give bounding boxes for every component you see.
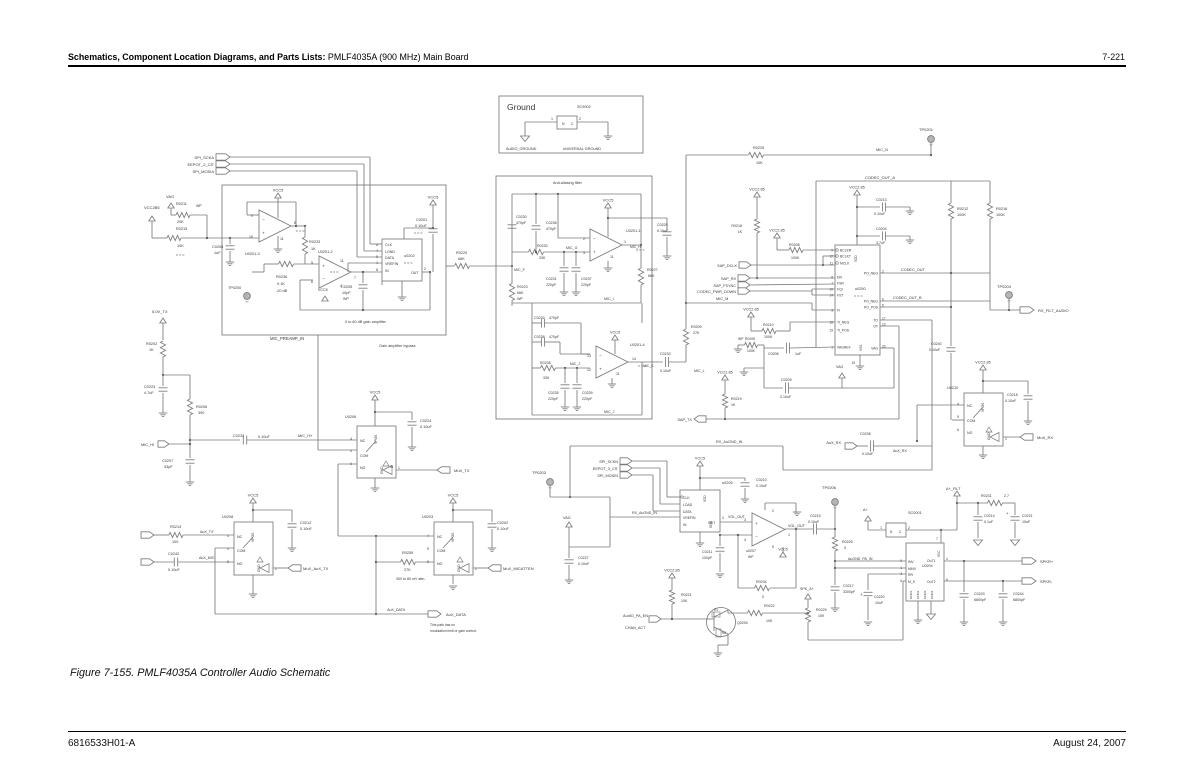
svg-text:INV: INV bbox=[908, 560, 914, 564]
svg-text:33pF: 33pF bbox=[164, 465, 173, 469]
svg-text:NC: NC bbox=[967, 404, 973, 408]
svg-text:220pF: 220pF bbox=[581, 283, 592, 287]
svg-text:−: − bbox=[599, 354, 602, 359]
svg-text:U0210: U0210 bbox=[947, 386, 958, 390]
svg-text:C0204: C0204 bbox=[876, 227, 887, 231]
svg-text:0.10uF: 0.10uF bbox=[808, 520, 820, 524]
svg-text:Gain amplifier bypass: Gain amplifier bypass bbox=[379, 344, 416, 348]
svg-text:VCC5: VCC5 bbox=[448, 493, 459, 498]
svg-text:C0235: C0235 bbox=[548, 391, 559, 395]
svg-text:10K: 10K bbox=[681, 599, 688, 603]
svg-text:+: + bbox=[860, 592, 863, 597]
svg-text:NO: NO bbox=[967, 431, 973, 435]
svg-text:470pF: 470pF bbox=[549, 335, 560, 339]
svg-text:66K: 66K bbox=[458, 257, 465, 261]
svg-text:SPI_SCKN: SPI_SCKN bbox=[599, 460, 618, 464]
svg-text:M_S: M_S bbox=[908, 580, 916, 584]
svg-text:2: 2 bbox=[583, 237, 585, 241]
svg-text:6800pF: 6800pF bbox=[974, 598, 987, 602]
svg-text:C0201: C0201 bbox=[416, 218, 427, 222]
svg-text:R0225: R0225 bbox=[753, 146, 764, 150]
svg-text:9: 9 bbox=[900, 559, 902, 563]
svg-text:+: + bbox=[755, 521, 758, 526]
svg-text:R0236: R0236 bbox=[276, 275, 287, 279]
svg-text:VPOS: VPOS bbox=[251, 532, 255, 542]
svg-text:MuX_MICATTEN: MuX_MICATTEN bbox=[503, 566, 534, 571]
svg-text:WP: WP bbox=[196, 204, 202, 208]
svg-text:BCLKR: BCLKR bbox=[840, 249, 852, 253]
svg-text:MIC_M: MIC_M bbox=[716, 297, 728, 301]
svg-text:10pF: 10pF bbox=[342, 291, 351, 295]
svg-text:TO: TO bbox=[873, 319, 878, 323]
svg-text:R0213: R0213 bbox=[170, 525, 181, 529]
svg-text:SC0001: SC0001 bbox=[908, 511, 922, 515]
svg-text:1K: 1K bbox=[738, 230, 743, 234]
svg-text:MIC_J: MIC_J bbox=[604, 410, 615, 414]
svg-text:VCC5: VCC5 bbox=[610, 331, 620, 335]
svg-text:SPKR-: SPKR- bbox=[1040, 579, 1053, 584]
svg-text:SC9002: SC9002 bbox=[577, 105, 591, 109]
svg-text:10K: 10K bbox=[177, 244, 184, 248]
svg-text:VOL_OUT': VOL_OUT' bbox=[788, 524, 806, 528]
svg-text:MIC_F: MIC_F bbox=[514, 268, 526, 272]
svg-text:R0219: R0219 bbox=[731, 397, 742, 401]
svg-text:C0232: C0232 bbox=[534, 316, 545, 320]
svg-text:5: 5 bbox=[311, 261, 313, 265]
svg-text:+: + bbox=[599, 366, 602, 371]
svg-text:COM: COM bbox=[237, 549, 245, 553]
svg-text:1: 1 bbox=[624, 240, 626, 244]
svg-text:2: 2 bbox=[772, 509, 774, 513]
svg-text:C0243: C0243 bbox=[974, 592, 985, 596]
svg-text:5: 5 bbox=[427, 547, 429, 551]
svg-text:1: 1 bbox=[398, 466, 400, 470]
svg-text:C0220: C0220 bbox=[874, 595, 885, 599]
svg-text:100: 100 bbox=[172, 540, 178, 544]
svg-text:Q0200: Q0200 bbox=[737, 621, 748, 625]
svg-text:SPKR+: SPKR+ bbox=[1040, 559, 1054, 564]
svg-text:100pF: 100pF bbox=[702, 556, 713, 560]
svg-text:100K: 100K bbox=[791, 256, 800, 260]
svg-text:0: 0 bbox=[762, 595, 764, 599]
svg-text:VCC2.85: VCC2.85 bbox=[664, 569, 679, 573]
svg-text:11: 11 bbox=[610, 255, 614, 259]
svg-text:100K: 100K bbox=[957, 213, 966, 217]
svg-text:CODEC_PWR_DOWN: CODEC_PWR_DOWN bbox=[697, 290, 736, 294]
svg-text:R0255: R0255 bbox=[402, 551, 413, 555]
svg-text:C0211: C0211 bbox=[702, 550, 712, 554]
svg-text:R0229: R0229 bbox=[816, 608, 827, 612]
svg-text:7: 7 bbox=[354, 276, 356, 280]
svg-text:11: 11 bbox=[340, 259, 344, 263]
svg-text:11: 11 bbox=[280, 237, 284, 241]
svg-text:AuX_TX': AuX_TX' bbox=[200, 530, 214, 534]
svg-text:U0208: U0208 bbox=[222, 515, 233, 519]
svg-text:MuX_TX: MuX_TX bbox=[454, 468, 470, 473]
svg-text:MIC_PREAMP_IN: MIC_PREAMP_IN bbox=[270, 336, 304, 341]
svg-text:+: + bbox=[1006, 511, 1009, 516]
svg-text:R0216: R0216 bbox=[996, 207, 1007, 211]
svg-text:C0233: C0233 bbox=[660, 352, 671, 356]
svg-text:33K: 33K bbox=[539, 256, 546, 260]
svg-text:0: 0 bbox=[844, 546, 846, 550]
svg-text:0.10uF: 0.10uF bbox=[168, 568, 181, 572]
svg-text:3: 3 bbox=[744, 518, 746, 522]
svg-text:PO_NEG: PO_NEG bbox=[864, 272, 878, 276]
svg-text:RX_AuGND_IN: RX_AuGND_IN bbox=[632, 511, 657, 515]
svg-text:27K: 27K bbox=[404, 568, 411, 572]
svg-text:WP: WP bbox=[517, 297, 523, 301]
svg-text:4: 4 bbox=[946, 557, 948, 561]
svg-text:R0206: R0206 bbox=[196, 405, 207, 409]
svg-text:SAP_TX: SAP_TX bbox=[677, 418, 692, 422]
svg-text:MIC_HI: MIC_HI bbox=[141, 443, 154, 447]
svg-text:NO: NO bbox=[237, 562, 243, 566]
svg-text:−: − bbox=[593, 237, 596, 242]
svg-text:9.1K: 9.1K bbox=[277, 282, 285, 286]
svg-text:15: 15 bbox=[851, 361, 855, 365]
svg-text:390: 390 bbox=[198, 411, 204, 415]
svg-text:u0207: u0207 bbox=[746, 549, 756, 553]
svg-text:R0210: R0210 bbox=[763, 323, 774, 327]
svg-text:COM: COM bbox=[437, 549, 445, 553]
svg-text:1: 1 bbox=[900, 566, 902, 570]
svg-text:4: 4 bbox=[350, 437, 352, 441]
svg-text:R0221: R0221 bbox=[681, 593, 692, 597]
svg-text:VCC5: VCC5 bbox=[603, 198, 614, 203]
svg-text:100K: 100K bbox=[996, 213, 1005, 217]
svg-text:PO_POS: PO_POS bbox=[864, 306, 879, 310]
svg-text:OUT: OUT bbox=[411, 271, 419, 275]
svg-text:+: + bbox=[593, 249, 596, 254]
svg-text:11: 11 bbox=[616, 372, 620, 376]
svg-text:10uF: 10uF bbox=[1022, 520, 1031, 524]
svg-text:100K: 100K bbox=[764, 335, 773, 339]
svg-text:IN: IN bbox=[390, 465, 394, 469]
svg-text:EEPOT_3_CS': EEPOT_3_CS' bbox=[593, 467, 618, 471]
svg-text:VCC5: VCC5 bbox=[318, 288, 328, 292]
svg-text:C0230: C0230 bbox=[516, 215, 527, 219]
svg-text:Anti-aliasing filter: Anti-aliasing filter bbox=[553, 181, 583, 185]
svg-text:8: 8 bbox=[376, 268, 378, 272]
svg-text:13: 13 bbox=[587, 354, 591, 358]
svg-text:VCC2.85: VCC2.85 bbox=[749, 188, 764, 192]
svg-text:6: 6 bbox=[957, 428, 959, 432]
svg-text:WP: WP bbox=[343, 297, 349, 301]
svg-text:1K: 1K bbox=[731, 403, 736, 407]
svg-text:VCC2.85: VCC2.85 bbox=[717, 371, 732, 375]
svg-text:C0218: C0218 bbox=[1007, 393, 1018, 397]
svg-text:CODEC_OUT_B: CODEC_OUT_B bbox=[893, 296, 922, 300]
svg-text:0.10uF: 0.10uF bbox=[660, 369, 672, 373]
svg-text:VAGREF: VAGREF bbox=[837, 346, 851, 350]
svg-text:SAP_DCLK: SAP_DCLK bbox=[717, 264, 737, 268]
svg-text:RX_FILT_AUDIO: RX_FILT_AUDIO bbox=[1038, 308, 1069, 313]
svg-text:VREFIN: VREFIN bbox=[683, 516, 696, 520]
svg-text:3300pF: 3300pF bbox=[843, 590, 856, 594]
svg-text:MIC_L: MIC_L bbox=[694, 369, 705, 373]
svg-text:0.10uF: 0.10uF bbox=[929, 348, 941, 352]
svg-text:C0207: C0207 bbox=[162, 459, 173, 463]
svg-text:R0226: R0226 bbox=[842, 540, 853, 544]
svg-text:VSS: VSS bbox=[859, 345, 863, 351]
svg-text:CLK: CLK bbox=[683, 496, 690, 500]
svg-text:TP0201: TP0201 bbox=[919, 127, 934, 132]
svg-text:4: 4 bbox=[744, 538, 746, 542]
svg-text:AuX_DATA: AuX_DATA bbox=[446, 612, 466, 617]
svg-text:NO: NO bbox=[437, 562, 443, 566]
svg-text:A+: A+ bbox=[863, 508, 869, 512]
svg-text:10K: 10K bbox=[756, 161, 763, 165]
svg-text:66K: 66K bbox=[517, 291, 524, 295]
svg-text:IN: IN bbox=[683, 523, 687, 527]
svg-text:AuX_MIC': AuX_MIC' bbox=[199, 556, 215, 560]
svg-text:GND4: GND4 bbox=[930, 590, 934, 599]
svg-text:TI_NEG: TI_NEG bbox=[837, 321, 850, 325]
svg-text:6: 6 bbox=[900, 579, 902, 583]
svg-text:WP: WP bbox=[738, 337, 744, 341]
svg-text:NC: NC bbox=[237, 535, 243, 539]
svg-text:7: 7 bbox=[936, 537, 938, 541]
svg-text:C0205: C0205 bbox=[341, 285, 352, 289]
svg-text:TP0203: TP0203 bbox=[532, 470, 547, 475]
svg-text:RX_AuGND_IN: RX_AuGND_IN bbox=[716, 440, 743, 444]
svg-text:+: + bbox=[262, 230, 265, 235]
svg-text:−: − bbox=[262, 218, 265, 223]
svg-text:R0211: R0211 bbox=[176, 202, 187, 206]
svg-text:300 to 80 mV attn.: 300 to 80 mV attn. bbox=[396, 577, 425, 581]
svg-text:R0223: R0223 bbox=[517, 285, 528, 289]
svg-text:0.10uF: 0.10uF bbox=[657, 229, 669, 233]
svg-text:VCC2.85: VCC2.85 bbox=[975, 361, 990, 365]
svg-text:C0237: C0237 bbox=[581, 277, 592, 281]
svg-text:TP0206: TP0206 bbox=[822, 485, 837, 490]
svg-text:VCC2.85: VCC2.85 bbox=[769, 229, 784, 233]
svg-text:TP0204: TP0204 bbox=[997, 284, 1012, 289]
svg-text:470pF: 470pF bbox=[549, 316, 560, 320]
svg-text:SPI_MOSIN: SPI_MOSIN bbox=[597, 474, 618, 478]
svg-text:U0203: U0203 bbox=[422, 515, 433, 519]
svg-text:C0214: C0214 bbox=[984, 514, 995, 518]
svg-text:OuT1: OuT1 bbox=[927, 559, 936, 563]
svg-text:R0227: R0227 bbox=[647, 268, 658, 272]
svg-text:+: + bbox=[322, 264, 325, 269]
svg-text:10K: 10K bbox=[818, 614, 825, 618]
svg-text:66K: 66K bbox=[648, 274, 655, 278]
svg-text:This path has no: This path has no bbox=[430, 623, 455, 627]
svg-text:−: − bbox=[755, 534, 758, 539]
svg-text:GND: GND bbox=[987, 432, 991, 440]
svg-text:VREFIN: VREFIN bbox=[385, 262, 399, 266]
svg-text:0.10uF: 0.10uF bbox=[415, 224, 428, 228]
svg-text:MIC_K: MIC_K bbox=[643, 364, 654, 368]
svg-text:0.10uF: 0.10uF bbox=[258, 435, 271, 439]
svg-text:FQI: FQI bbox=[837, 288, 843, 292]
svg-text:4.7uF: 4.7uF bbox=[876, 241, 886, 245]
svg-text:0.1uF: 0.1uF bbox=[984, 520, 994, 524]
svg-text:C0202: C0202 bbox=[497, 521, 508, 525]
svg-text:WP: WP bbox=[748, 555, 754, 559]
svg-text:2: 2 bbox=[424, 267, 426, 271]
svg-text:C0240: C0240 bbox=[931, 342, 942, 346]
svg-text:5.0V_TX: 5.0V_TX bbox=[152, 309, 168, 314]
svg-text:4.7uF: 4.7uF bbox=[144, 391, 154, 395]
svg-text:R0231: R0231 bbox=[981, 494, 992, 498]
svg-text:CODEC_OUT_A: CODEC_OUT_A bbox=[865, 175, 895, 180]
svg-text:VDD: VDD bbox=[854, 255, 858, 262]
svg-text:U0201-3: U0201-3 bbox=[245, 252, 260, 256]
svg-text:R0209: R0209 bbox=[691, 325, 702, 329]
svg-text:CLK: CLK bbox=[385, 243, 393, 247]
svg-text:CHAN_ACT: CHAN_ACT bbox=[625, 626, 646, 630]
svg-text:12: 12 bbox=[587, 368, 591, 372]
svg-text:NINV: NINV bbox=[908, 567, 917, 571]
svg-text:VAG: VAG bbox=[836, 365, 844, 369]
svg-text:modulation limit or gain contr: modulation limit or gain control. bbox=[430, 629, 477, 633]
svg-text:5: 5 bbox=[772, 545, 774, 549]
svg-text:C: C bbox=[899, 530, 902, 534]
svg-text:u0250: u0250 bbox=[855, 287, 866, 291]
svg-text:19: 19 bbox=[829, 328, 833, 332]
svg-text:3: 3 bbox=[900, 572, 902, 576]
svg-text:AuX_RX: AuX_RX bbox=[826, 441, 841, 445]
svg-text:R0212: R0212 bbox=[957, 207, 968, 211]
svg-text:C0221: C0221 bbox=[1022, 514, 1033, 518]
svg-text:AuDIO_GROUND: AuDIO_GROUND bbox=[506, 147, 537, 151]
svg-text:SPK_A+: SPK_A+ bbox=[800, 587, 814, 591]
svg-text:VPOS: VPOS bbox=[981, 402, 985, 412]
svg-text:EEPOT_2_CS': EEPOT_2_CS' bbox=[187, 162, 214, 167]
svg-text:DATA: DATA bbox=[683, 510, 692, 514]
svg-text:2: 2 bbox=[579, 117, 581, 121]
svg-text:C0224: C0224 bbox=[420, 419, 431, 423]
svg-text:C0236: C0236 bbox=[546, 221, 557, 225]
svg-text:SAP_RX: SAP_RX bbox=[721, 277, 736, 281]
svg-text:AuX_DATA: AuX_DATA bbox=[387, 608, 405, 612]
svg-text:R0233: R0233 bbox=[309, 240, 320, 244]
svg-text:N: N bbox=[562, 122, 565, 126]
svg-text:AuGND_PA_IN: AuGND_PA_IN bbox=[848, 557, 873, 561]
svg-text:C0206: C0206 bbox=[768, 352, 779, 356]
svg-text:BCLKT: BCLKT bbox=[840, 255, 851, 259]
svg-text:1: 1 bbox=[880, 526, 882, 530]
svg-text:uNIVERSAL GROuND: uNIVERSAL GROuND bbox=[563, 147, 601, 151]
svg-text:20K: 20K bbox=[177, 220, 184, 224]
svg-text:R0208: R0208 bbox=[789, 243, 800, 247]
svg-text:0.10uF: 0.10uF bbox=[862, 452, 874, 456]
svg-text:−: − bbox=[322, 276, 325, 281]
svg-text:C0244: C0244 bbox=[1013, 592, 1024, 596]
svg-text:FST: FST bbox=[837, 294, 843, 298]
svg-text:COM: COM bbox=[360, 454, 368, 458]
svg-text:VAG: VAG bbox=[166, 194, 174, 199]
svg-text:10K: 10K bbox=[766, 619, 773, 623]
svg-text:VCC5: VCC5 bbox=[695, 457, 705, 461]
svg-text:C0209: C0209 bbox=[781, 378, 792, 382]
svg-text:MIC_N: MIC_N bbox=[876, 148, 888, 152]
svg-text:FSR: FSR bbox=[837, 282, 844, 286]
svg-text:R0234: R0234 bbox=[756, 580, 767, 584]
svg-text:27K: 27K bbox=[693, 331, 700, 335]
svg-text:R0218: R0218 bbox=[731, 224, 742, 228]
svg-text:Ground: Ground bbox=[507, 102, 536, 112]
svg-text:C0215: C0215 bbox=[810, 514, 821, 518]
svg-text:LOAD: LOAD bbox=[683, 503, 693, 507]
svg-text:SPI_MOSIA: SPI_MOSIA bbox=[192, 169, 214, 174]
svg-text:220pF: 220pF bbox=[582, 397, 593, 401]
svg-text:MIC_HY: MIC_HY bbox=[298, 434, 313, 438]
svg-text:VPOS: VPOS bbox=[451, 532, 455, 542]
svg-text:C0227: C0227 bbox=[578, 556, 589, 560]
svg-text:VCC5: VCC5 bbox=[273, 188, 284, 193]
svg-text:VCC2.85: VCC2.85 bbox=[849, 186, 864, 190]
svg-text:0.10uF: 0.10uF bbox=[497, 527, 510, 531]
svg-text:10uF: 10uF bbox=[875, 601, 884, 605]
svg-text:6800pF: 6800pF bbox=[1013, 598, 1026, 602]
svg-text:R0230: R0230 bbox=[537, 244, 548, 248]
svg-text:MuX_RX: MuX_RX bbox=[1037, 435, 1053, 440]
svg-text:VCC5: VCC5 bbox=[428, 195, 439, 200]
svg-text:1uF: 1uF bbox=[795, 352, 802, 356]
svg-text:U0201-1: U0201-1 bbox=[626, 229, 641, 233]
svg-text:-20 dB: -20 dB bbox=[276, 289, 288, 293]
svg-text:470pF: 470pF bbox=[546, 227, 557, 231]
svg-text:NO: NO bbox=[360, 466, 366, 470]
svg-text:FI: FI bbox=[837, 309, 840, 313]
svg-text:3: 3 bbox=[831, 308, 833, 312]
svg-text:3: 3 bbox=[583, 251, 585, 255]
svg-text:TP0200: TP0200 bbox=[228, 286, 241, 290]
svg-text:RR: RR bbox=[908, 573, 913, 577]
svg-text:C0223: C0223 bbox=[144, 385, 155, 389]
svg-text:C0210: C0210 bbox=[756, 478, 767, 482]
svg-text:C0217: C0217 bbox=[843, 584, 854, 588]
svg-text:2: 2 bbox=[722, 516, 724, 520]
svg-text:C0234: C0234 bbox=[233, 434, 244, 438]
svg-text:5: 5 bbox=[957, 415, 959, 419]
svg-text:COM: COM bbox=[967, 419, 975, 423]
svg-text:SAP_FSYNC: SAP_FSYNC bbox=[713, 284, 736, 288]
svg-text:OUT: OUT bbox=[708, 521, 715, 525]
svg-text:MIC_I: MIC_I bbox=[604, 297, 614, 301]
svg-text:OT: OT bbox=[873, 325, 878, 329]
svg-text:10: 10 bbox=[249, 235, 253, 239]
svg-text:C0238: C0238 bbox=[534, 335, 545, 339]
svg-text:VDD: VDD bbox=[703, 495, 707, 502]
svg-text:0.10uF: 0.10uF bbox=[1005, 399, 1017, 403]
svg-text:C: C bbox=[571, 122, 574, 126]
svg-text:U0206: U0206 bbox=[345, 415, 356, 419]
svg-text:8: 8 bbox=[831, 275, 833, 279]
svg-text:DATA: DATA bbox=[385, 256, 395, 260]
svg-text:C0229: C0229 bbox=[657, 223, 668, 227]
svg-text:AuX_RX': AuX_RX' bbox=[893, 449, 908, 453]
svg-text:1: 1 bbox=[1005, 437, 1007, 441]
svg-text:TI_POS: TI_POS bbox=[837, 329, 850, 333]
svg-text:1K: 1K bbox=[311, 247, 316, 251]
svg-text:0.10uF: 0.10uF bbox=[756, 484, 768, 488]
svg-text:IN: IN bbox=[385, 269, 389, 273]
svg-text:GND3: GND3 bbox=[923, 590, 927, 599]
svg-text:0 to 60 dB gain amplifier: 0 to 60 dB gain amplifier bbox=[345, 320, 387, 324]
svg-text:C0208: C0208 bbox=[212, 245, 223, 249]
svg-text:GND2: GND2 bbox=[916, 590, 920, 599]
svg-text:R0238: R0238 bbox=[540, 361, 551, 365]
svg-text:VCC2.85: VCC2.85 bbox=[743, 308, 758, 312]
svg-text:NC: NC bbox=[437, 535, 443, 539]
svg-text:0.10uF: 0.10uF bbox=[578, 562, 590, 566]
svg-text:OuT2: OuT2 bbox=[927, 580, 936, 584]
